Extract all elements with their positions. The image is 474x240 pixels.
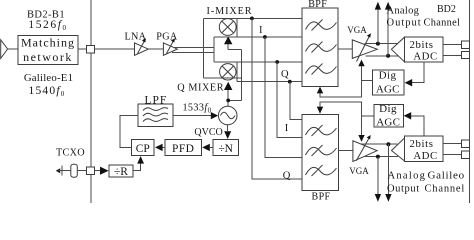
svg-text:QVCO: QVCO xyxy=(194,127,222,138)
svg-text:Dig: Dig xyxy=(379,69,397,81)
svg-text:2bits: 2bits xyxy=(410,138,434,150)
svg-text:Channel: Channel xyxy=(425,183,466,194)
svg-text:BPF: BPF xyxy=(312,191,331,202)
svg-text:Galileo: Galileo xyxy=(428,170,465,182)
svg-text:Dig: Dig xyxy=(379,103,397,115)
svg-text:PFD: PFD xyxy=(172,143,194,155)
svg-text:Output: Output xyxy=(387,183,420,194)
svg-text:I-MIXER: I-MIXER xyxy=(207,6,253,17)
svg-text:1533f0: 1533f0 xyxy=(182,102,211,114)
svg-text:AGC: AGC xyxy=(376,117,400,129)
svg-text:Analog: Analog xyxy=(387,5,420,16)
svg-text:AGC: AGC xyxy=(376,84,400,96)
svg-text:1526f0: 1526f0 xyxy=(28,19,67,32)
svg-text:Galileo-E1: Galileo-E1 xyxy=(24,72,73,84)
svg-text:Output: Output xyxy=(387,18,422,29)
svg-text:÷N: ÷N xyxy=(218,143,233,155)
svg-text:VGA: VGA xyxy=(349,166,369,176)
svg-text:I: I xyxy=(259,25,263,36)
svg-text:2bits: 2bits xyxy=(410,39,434,51)
svg-text:ADC: ADC xyxy=(413,51,437,63)
svg-text:Q: Q xyxy=(281,69,289,80)
svg-text:CP: CP xyxy=(136,143,150,155)
svg-text:Analog: Analog xyxy=(388,171,427,182)
svg-text:network: network xyxy=(23,50,73,64)
svg-text:ADC: ADC xyxy=(413,150,437,162)
svg-text:VGA: VGA xyxy=(347,25,367,35)
svg-text:I: I xyxy=(285,123,289,134)
svg-text:TCXO: TCXO xyxy=(56,147,85,158)
svg-text:BD2: BD2 xyxy=(437,4,456,15)
svg-text:Q: Q xyxy=(283,170,291,181)
svg-text:Channel: Channel xyxy=(424,18,461,29)
svg-text:1540f0: 1540f0 xyxy=(29,85,66,98)
svg-text:Matching: Matching xyxy=(21,35,75,49)
svg-text:Q MIXER: Q MIXER xyxy=(177,82,224,93)
svg-text:PGA: PGA xyxy=(156,31,178,42)
svg-text:÷R: ÷R xyxy=(114,166,128,178)
